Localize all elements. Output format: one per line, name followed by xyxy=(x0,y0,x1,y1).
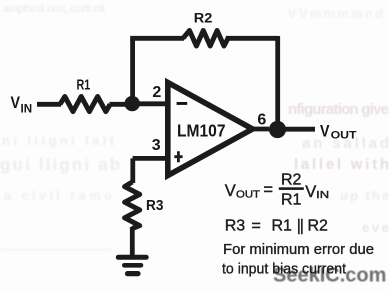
faint bleed-through text left side line 3 xyxy=(4,188,112,203)
svg-text:R1: R1 xyxy=(272,218,293,235)
wire junction up to feedback line xyxy=(130,39,135,104)
label Vout xyxy=(320,122,357,141)
wire down from feedback to output node xyxy=(275,36,280,123)
svg-text:6: 6 xyxy=(257,112,266,129)
formula Vout = R2/R1 Vin xyxy=(225,172,329,209)
resistor R1 xyxy=(60,97,110,112)
svg-text:3: 3 xyxy=(152,137,161,154)
svg-text:R3: R3 xyxy=(146,197,163,214)
svg-text:V: V xyxy=(11,94,21,112)
svg-text:V: V xyxy=(305,183,316,201)
svg-text:=: = xyxy=(252,218,261,235)
output node xyxy=(269,121,286,138)
faint bleed-through text right side line 2 xyxy=(302,135,389,152)
faint bleed-through text right side line 1 xyxy=(288,101,389,118)
wire op-amp pin 3 to left corner xyxy=(133,156,165,161)
svg-text:R2: R2 xyxy=(281,172,302,189)
formula R3 = R1 parallel R2 xyxy=(225,218,328,235)
svg-text:V: V xyxy=(225,182,236,200)
svg-text:amphcsi ncn, ccrti cti: amphcsi ncn, ccrti cti xyxy=(3,3,105,15)
wire R1 to junction node xyxy=(110,102,129,107)
op-amp non-inverting input plus sign xyxy=(174,151,182,162)
faint bleed-through text right side line 4 xyxy=(340,188,389,203)
faint bleed-through text right side line 5 xyxy=(362,220,389,235)
svg-text:OUT: OUT xyxy=(236,189,261,201)
svg-text:OUT: OUT xyxy=(331,130,357,142)
svg-text:R1: R1 xyxy=(281,192,302,209)
faint bleed-through text right side line 3 xyxy=(294,156,389,173)
svg-text:R1: R1 xyxy=(77,76,91,93)
svg-text:R2: R2 xyxy=(308,218,329,235)
svg-text:LM107: LM107 xyxy=(177,120,226,140)
svg-text:R3: R3 xyxy=(225,218,246,235)
wire op-amp output to node xyxy=(251,127,269,132)
wire top feedback left segment xyxy=(130,36,184,41)
resistor R3 xyxy=(125,182,140,229)
label Vin xyxy=(11,94,33,116)
op-amp U1 triangle xyxy=(168,83,253,176)
svg-text:=: = xyxy=(263,181,273,199)
wire junction to op-amp pin 2 xyxy=(132,101,165,106)
faint bleed-through text top-right xyxy=(288,6,383,21)
svg-text:eve: eve xyxy=(362,220,389,235)
svg-text:V: V xyxy=(320,122,330,140)
faint smudge bottom-left xyxy=(0,249,112,252)
main schematic ink xyxy=(37,31,315,259)
faint bleed-through text top-left xyxy=(3,3,105,15)
faint bleed-through text left side line 2 xyxy=(0,155,120,174)
svg-text:IN: IN xyxy=(316,189,329,201)
op-amp inverting input minus sign xyxy=(177,102,188,105)
junction node at inverting input xyxy=(125,96,140,111)
wire Vin to R1 xyxy=(37,102,61,107)
wire corner down to R3 xyxy=(130,158,135,183)
svg-text:2: 2 xyxy=(152,84,161,101)
ground symbol xyxy=(118,257,146,273)
svg-text:up the: up the xyxy=(340,188,389,203)
resistor R2 xyxy=(183,31,228,47)
wire node to Vout xyxy=(276,127,315,132)
svg-text:nfiguration give: nfiguration give xyxy=(288,101,389,118)
svg-text:R2: R2 xyxy=(194,10,213,26)
svg-text:||: || xyxy=(297,218,303,235)
wire R3 to ground xyxy=(130,227,135,259)
svg-text:IN: IN xyxy=(21,101,33,115)
svg-text:to input bias current: to input bias current xyxy=(222,262,346,278)
faint bleed-through text left side line 1 xyxy=(2,133,115,148)
svg-text:For minimum error due: For minimum error due xyxy=(223,242,374,258)
wire top feedback right segment xyxy=(226,36,278,41)
svg-text:gui liigni ab: gui liigni ab xyxy=(0,155,120,174)
